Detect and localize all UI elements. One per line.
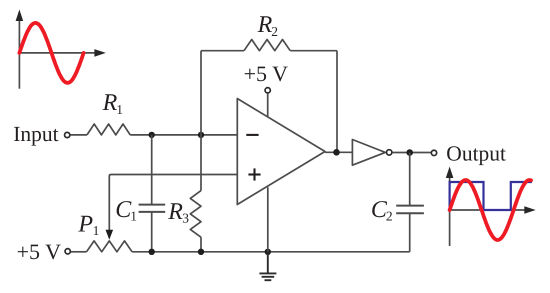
resistor R2 xyxy=(244,40,290,51)
node output/C2 xyxy=(406,149,413,156)
wire input terminal to R1 xyxy=(70,134,87,136)
output terminal xyxy=(431,150,436,155)
wire op-amp bottom to ground rail xyxy=(267,187,269,252)
wire op-amp output to inverter xyxy=(325,151,352,153)
op-amp U1 xyxy=(237,99,325,205)
potentiometer P1 xyxy=(87,241,133,252)
svg-text:+5 V: +5 V xyxy=(244,61,289,86)
wire R1 to op-amp minus input xyxy=(130,134,237,136)
+5 V terminal (potentiometer) xyxy=(65,249,70,254)
feedback left rail xyxy=(200,51,202,135)
capacitor C2 branch lower wire xyxy=(409,213,411,252)
svg-text:+5 V: +5 V xyxy=(17,239,62,264)
output icon red sine xyxy=(450,180,531,240)
output waveform icon axes xyxy=(450,171,529,246)
capacitor C1 branch upper wire xyxy=(151,135,153,205)
wire +5 V terminal to potentiometer xyxy=(71,251,87,253)
capacitor C2 xyxy=(396,206,424,214)
input icon axis arrowheads xyxy=(16,10,106,57)
svg-text:2: 2 xyxy=(271,24,278,39)
resistor R1 xyxy=(87,124,130,135)
svg-text:1: 1 xyxy=(93,223,100,238)
resistor R3 branch lower wire xyxy=(200,237,202,252)
op-amp plus symbol xyxy=(248,168,260,180)
svg-text:Output: Output xyxy=(446,141,506,165)
capacitor C1 xyxy=(139,205,166,212)
svg-text:Input: Input xyxy=(13,122,58,146)
inverter U2 xyxy=(352,140,385,166)
node B (feedback / R3 junction) xyxy=(198,132,204,138)
wire inverter to output terminal xyxy=(392,152,431,154)
input waveform icon axes xyxy=(19,14,99,89)
resistor R3 xyxy=(190,191,201,238)
svg-text:3: 3 xyxy=(182,211,189,226)
+5 V terminal (op-amp supply) xyxy=(265,88,270,93)
ground xyxy=(259,252,276,280)
capacitor C2 branch upper wire xyxy=(409,153,411,206)
wire +5 V to op-amp top xyxy=(267,93,269,117)
node op-amp output xyxy=(333,149,340,156)
input terminal xyxy=(65,132,70,137)
node A (C1 branch junction) xyxy=(149,132,155,138)
feedback top rail left segment xyxy=(201,50,244,52)
ground rail xyxy=(132,251,410,253)
feedback top rail right segment xyxy=(290,50,337,52)
feedback right rail xyxy=(336,51,338,153)
wiper arrowhead xyxy=(106,230,114,240)
inverter bubble xyxy=(387,150,392,155)
svg-text:R: R xyxy=(102,90,118,116)
op-amp minus symbol xyxy=(246,134,258,136)
svg-text:1: 1 xyxy=(130,208,137,223)
node R3-ground xyxy=(198,249,204,255)
resistor R3 branch upper wire xyxy=(200,135,202,191)
svg-text:R: R xyxy=(167,199,183,225)
output icon axis arrowheads xyxy=(446,167,536,214)
svg-text:2: 2 xyxy=(386,209,393,224)
capacitor C1 branch lower wire xyxy=(151,212,153,252)
svg-text:R: R xyxy=(257,12,273,38)
input icon red sine xyxy=(19,23,83,83)
svg-text:1: 1 xyxy=(116,102,123,117)
svg-text:P: P xyxy=(77,212,93,238)
output icon blue square wave xyxy=(450,182,532,210)
node C1-ground xyxy=(149,249,155,255)
wire wiper to op-amp plus input xyxy=(109,175,237,232)
node op-amp ground xyxy=(265,249,271,255)
